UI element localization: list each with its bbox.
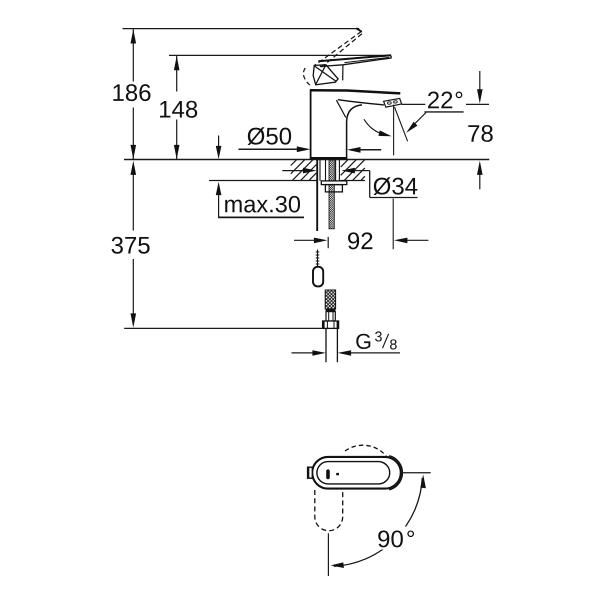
dimension Ø34 right arrow and leader [341,168,369,174]
dimension Ø34 left arrow [282,168,316,174]
dimension line 375 [131,161,137,328]
threaded shank rod [329,160,334,229]
extension line top (186 ref, raised lever tip level) [123,28,360,30]
label 8 of G3/8 [390,339,397,349]
label 148 [160,101,197,118]
label 78 [468,125,492,142]
90deg arc [334,478,423,567]
label 90° [378,530,403,547]
label 22° [428,92,452,109]
label G of G3/8 [356,334,370,349]
dimension line 148 [174,56,180,159]
label Ø50 [248,127,292,145]
reference line at hose nut level [124,327,322,329]
Ø34 extension line down [392,199,394,250]
dimension Ø50 right arrow [347,147,381,153]
lever rear edge [342,65,344,80]
shank tube left [320,160,326,181]
top view dashed ghost arc (lever raised) [345,445,387,457]
hose connector [326,312,335,321]
label 375 [112,237,150,254]
countertop hatching left block [291,160,317,180]
dimension 92 right arrow [394,238,429,244]
dimension 92 left arrow [294,238,327,244]
dimension max.30 top arrow [216,136,222,160]
mounting nut [325,185,342,192]
raised lever dashed line A [315,31,362,65]
top view body circle arc [389,456,402,490]
dimension 78 top arrow [477,71,483,104]
lever blade top edge [318,55,391,61]
connection pipe G3/8 [326,328,337,362]
label 92 [348,232,372,249]
lever pivot cap outline [313,65,338,85]
faucet base bottom [310,157,347,160]
22 deg aerator level extension line [402,103,490,105]
top view dashed lever rotated 90deg [315,490,343,531]
dimension 92 tick [327,237,329,248]
aerator body [384,98,402,107]
spout bottom edge [338,100,384,105]
mounting washer [321,181,347,185]
white mask behind 90deg label [374,527,417,550]
inner channel slant line [336,100,345,117]
top view small dot [336,473,339,475]
horizontal reference line right of body [401,472,431,474]
pivot cap inner line B [315,66,336,81]
dimension line 186 [131,29,137,159]
faucet body top edge and spout top [310,90,400,93]
lever blade bottom edge [320,56,391,67]
top view inner lever stadium [317,462,390,484]
shank pull rod thick line [316,160,318,231]
dimension 78 bottom arrow [477,161,483,190]
top view outer lever stadium [312,457,401,489]
faucet body left edge [310,90,312,159]
hose nut [323,321,339,328]
spout underside to body right edge curve [347,105,362,159]
label 90° degree sign [407,530,414,537]
countertop top line [124,159,489,161]
raised lever tip hook [356,28,362,32]
extension line mid (148 ref, lever tip level) [169,54,391,56]
22deg arc with arrow [364,119,392,136]
label fraction slash of G3/8 [383,334,389,348]
label 22deg underline [424,111,463,113]
countertop hatching right block [341,160,365,180]
22deg slant line [395,107,408,141]
dimension max.30 bottom arrow and stem [216,182,222,217]
hose collar [326,309,336,312]
shank tube right [336,160,340,181]
dimension G3/8 right arrow [338,350,400,356]
label 3 of G3/8 [375,331,382,341]
label 186 [113,84,150,101]
label max.30 [225,196,300,213]
vertical reference line at aerator [393,105,395,156]
drain pull rod lower segment with ribs [316,250,320,267]
label 22° degree sign [456,92,463,99]
top view left tab [308,467,313,478]
leader from 22deg label [406,113,426,133]
label Ø34 box [370,171,418,198]
dimension Ø50 left arrow [239,146,311,152]
pivot cap inner line A [316,65,326,84]
drain pull knob [313,267,323,287]
lever blade inner line [345,57,390,62]
countertop bottom line [209,180,365,182]
label max.30 underline [218,216,304,218]
vertical reference line below dashed lever [327,533,329,576]
90deg arc bottom arrow [331,562,344,568]
90deg arc top arrow [420,475,426,489]
raised lever dashed line B [322,34,363,67]
raised lever dashed arc left [303,68,311,86]
label Ø34 [374,177,418,195]
dimension G3/8 left arrow [292,350,326,356]
braided hose [325,290,335,309]
top view black mark [326,469,330,479]
